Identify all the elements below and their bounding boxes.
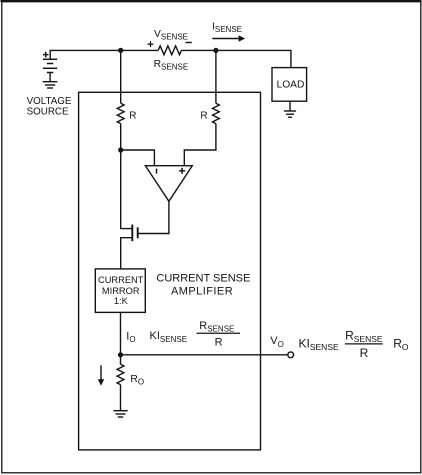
svg-text:1:K: 1:K xyxy=(114,296,129,306)
wire op-amp output to gate xyxy=(139,201,169,233)
wire MOSFET source to current mirror xyxy=(121,238,133,269)
svg-text:VOLTAGE: VOLTAGE xyxy=(27,96,72,107)
ISENSE arrow xyxy=(212,35,245,41)
wire from R left down to MOSFET drain xyxy=(121,124,133,229)
wire left branch down to resistor R left xyxy=(120,50,122,103)
svg-text:R: R xyxy=(200,111,207,122)
label CURRENT MIRROR 1:K xyxy=(98,275,144,306)
node dot output xyxy=(118,352,123,357)
wire inverting input xyxy=(121,150,155,165)
label minus RSENSE xyxy=(186,42,192,44)
wire right branch down to resistor R right xyxy=(215,50,217,103)
current direction arrow at RO xyxy=(98,365,104,385)
svg-text:MIRROR: MIRROR xyxy=(102,286,140,296)
amplifier boundary box xyxy=(79,92,261,450)
op-amp inverting mark xyxy=(156,169,158,174)
VO open terminal xyxy=(288,352,294,358)
fraction RSENSE over R left xyxy=(197,320,240,349)
wire top-left from battery to RSENSE xyxy=(50,50,158,59)
wire noninverting input xyxy=(184,124,216,165)
svg-text:R: R xyxy=(360,346,369,360)
op-amp U1 triangle xyxy=(145,166,192,202)
svg-text:AMPLIFIER: AMPLIFIER xyxy=(171,285,233,297)
svg-text:SOURCE: SOURCE xyxy=(27,107,69,118)
ground under RO xyxy=(113,411,127,417)
op-amp plus mark xyxy=(179,168,185,174)
wire RSENSE to load corner xyxy=(181,50,291,67)
label plus RSENSE xyxy=(148,41,154,47)
resistor R left zigzag xyxy=(117,103,124,123)
resistor R right zigzag xyxy=(212,103,219,123)
label VOLTAGE SOURCE xyxy=(27,96,72,117)
current mirror box xyxy=(95,269,145,313)
svg-text:CURRENT SENSE: CURRENT SENSE xyxy=(156,272,250,284)
fraction RSENSE over R right xyxy=(345,328,383,360)
node dot at inverting tap xyxy=(118,147,123,152)
resistor RO zigzag xyxy=(117,364,124,384)
node junction dot right on top wire xyxy=(213,48,218,53)
node junction dot left on top wire xyxy=(118,48,123,53)
svg-text:CURRENT: CURRENT xyxy=(98,275,144,285)
svg-text:R: R xyxy=(129,110,136,121)
wire RO to ground xyxy=(120,385,122,411)
svg-text:LOAD: LOAD xyxy=(277,80,305,91)
ground under battery xyxy=(43,82,58,88)
plus sign of battery xyxy=(43,52,49,58)
resistor RSENSE zigzag xyxy=(158,46,181,55)
transistor Q1 MOSFET bars xyxy=(132,225,137,242)
ground under LOAD xyxy=(284,101,296,117)
svg-text:R: R xyxy=(215,337,223,349)
LOAD box xyxy=(272,68,307,102)
wire output to VO terminal xyxy=(121,354,288,356)
battery V+ (voltage source) xyxy=(43,59,57,81)
wire output node down to RO xyxy=(120,355,122,365)
label CURRENT SENSE AMPLIFIER xyxy=(156,272,250,297)
wire current mirror to output node xyxy=(120,312,122,354)
